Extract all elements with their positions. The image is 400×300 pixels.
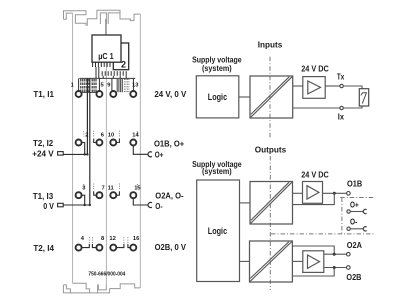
+24V external wire bbox=[63, 153, 87, 155]
amp triangle bbox=[308, 81, 321, 94]
wall left bbox=[72, 13, 74, 283]
svg-text:750-666/000-004: 750-666/000-004 bbox=[88, 272, 126, 278]
O1B terminal bbox=[347, 192, 351, 196]
wire logic to dcdc lower bbox=[240, 260, 250, 262]
terminal 11 bbox=[110, 192, 116, 198]
svg-text:15: 15 bbox=[134, 185, 141, 191]
svg-text:24 V, 0 V: 24 V, 0 V bbox=[154, 90, 186, 99]
svg-text:(system): (system) bbox=[202, 64, 232, 73]
inputs dash-dot separator bbox=[269, 57, 271, 139]
amplifier box upper bbox=[303, 182, 323, 204]
svg-text:7: 7 bbox=[102, 185, 105, 191]
channel separator horizontal bbox=[271, 233, 374, 235]
svg-text:T2, I2: T2, I2 bbox=[33, 139, 54, 148]
power rail +24V bbox=[86, 78, 88, 154]
Ix terminal circle bbox=[340, 106, 343, 109]
junction dot bbox=[84, 153, 86, 155]
svg-text:Logic: Logic bbox=[208, 226, 227, 236]
terminal 16 bbox=[130, 245, 136, 251]
svg-text:Ix: Ix bbox=[338, 113, 345, 122]
bus bar bbox=[79, 77, 135, 79]
dcdc converter lower bbox=[250, 241, 293, 282]
svg-text:T1, I3: T1, I3 bbox=[33, 192, 54, 201]
uC1 pins bbox=[93, 62, 110, 67]
O- option contact bbox=[347, 227, 350, 230]
hatch bottom line bbox=[79, 91, 97, 93]
outputs dash-dot separator vertical bbox=[269, 156, 271, 290]
wire Tx to load bbox=[344, 86, 362, 89]
svg-text:O1B, O+: O1B, O+ bbox=[154, 140, 184, 149]
row3 stubs bbox=[94, 191, 120, 195]
power rail 0V bbox=[89, 78, 91, 205]
svg-text:0 V: 0 V bbox=[43, 202, 54, 211]
load / sensor box bbox=[359, 89, 368, 106]
svg-text:O2B, 0 V: O2B, 0 V bbox=[155, 243, 187, 252]
svg-text:O2A: O2A bbox=[347, 241, 362, 250]
rail wire upper bbox=[293, 193, 335, 204]
wire logic to dcdc bbox=[239, 96, 250, 98]
wire terminal14 to O+ socket bbox=[133, 146, 147, 154]
dashed option box bbox=[341, 198, 343, 234]
svg-text:2: 2 bbox=[121, 59, 126, 69]
O2B loop bbox=[292, 268, 334, 277]
terminal 10 bbox=[110, 140, 116, 146]
wire logic to dcdc upper bbox=[240, 202, 251, 204]
terminal 2 bbox=[76, 140, 82, 146]
svg-text:O+: O+ bbox=[155, 150, 164, 159]
wire bundle hatch B bbox=[92, 79, 96, 92]
svg-text:O1B: O1B bbox=[347, 179, 362, 188]
dcdc converter upper bbox=[250, 182, 293, 225]
svg-text:T1, I1: T1, I1 bbox=[33, 90, 54, 99]
wire bundle hatch C bbox=[117, 79, 122, 92]
Tx terminal circle bbox=[340, 84, 343, 87]
0V external wire bbox=[63, 204, 90, 206]
wire bundle hatch D dotted bbox=[124, 79, 128, 92]
+24V plug bbox=[58, 152, 64, 156]
terminal 7 bbox=[96, 192, 102, 198]
O+ socket right bbox=[148, 152, 152, 157]
wall right bbox=[139, 14, 141, 288]
svg-text:(system): (system) bbox=[202, 167, 232, 176]
module bottom contour bbox=[63, 283, 140, 293]
terminal 6 bbox=[96, 140, 102, 146]
pin bus wires bbox=[96, 67, 126, 78]
amplifier box bbox=[303, 77, 325, 99]
uC2 pins bbox=[102, 71, 126, 76]
logic box bbox=[196, 76, 239, 118]
dcdc converter box bbox=[250, 76, 293, 118]
svg-text:16: 16 bbox=[133, 236, 140, 242]
svg-text:10: 10 bbox=[108, 133, 114, 139]
svg-text:11: 11 bbox=[108, 185, 115, 191]
wire amp to Tx bbox=[325, 85, 339, 87]
junction dot bbox=[333, 192, 336, 195]
amp out lower bbox=[324, 267, 346, 269]
svg-text:Logic: Logic bbox=[208, 92, 227, 102]
svg-text:12: 12 bbox=[109, 236, 115, 242]
amp out upper bbox=[324, 253, 346, 255]
wire terminal15 to O- socket bbox=[133, 199, 147, 205]
row1 circle wires bbox=[79, 78, 134, 90]
terminal 14 bbox=[130, 140, 136, 146]
row4 link wires bbox=[82, 244, 130, 248]
svg-text:T2, I4: T2, I4 bbox=[33, 244, 54, 253]
wire dcdc to amp upper bbox=[293, 192, 303, 194]
terminal 8 bbox=[96, 245, 102, 251]
O+ option contact bbox=[347, 210, 350, 213]
wire amp to O1B bbox=[323, 192, 347, 194]
terminal 5 bbox=[96, 91, 102, 97]
svg-text:14: 14 bbox=[132, 133, 139, 139]
wire uC to top contact bbox=[105, 19, 107, 35]
O2A loop bbox=[292, 246, 334, 254]
hatch white stripes bbox=[80, 82, 97, 89]
module top contour bbox=[64, 10, 141, 26]
amplifier box lower bbox=[303, 251, 324, 273]
0V plug bbox=[58, 203, 64, 207]
svg-text:O2A, O-: O2A, O- bbox=[155, 192, 184, 201]
svg-text:24 V DC: 24 V DC bbox=[301, 65, 329, 74]
svg-text:13: 13 bbox=[132, 83, 139, 89]
dcdc diagonals bbox=[251, 77, 292, 117]
svg-text:Tx: Tx bbox=[337, 73, 345, 82]
svg-text:24 V DC: 24 V DC bbox=[301, 171, 329, 180]
row2: wire terminal2 to rail bbox=[82, 143, 85, 155]
wire dcdc to amp bbox=[293, 85, 303, 87]
terminal 15 bbox=[130, 192, 136, 198]
terminal 9 bbox=[110, 91, 116, 97]
row3: wire terminal3 to rail bbox=[82, 195, 85, 205]
terminal 13 bbox=[130, 91, 136, 97]
svg-text:Inputs: Inputs bbox=[258, 41, 283, 50]
sensor glyph bbox=[361, 93, 367, 104]
logic box 2 bbox=[197, 180, 240, 282]
svg-text:Outputs: Outputs bbox=[255, 145, 287, 154]
module side walls / separators bbox=[73, 13, 141, 288]
microcontroller U1 bbox=[92, 35, 121, 62]
row2 stubs on 6,10 bbox=[94, 139, 120, 143]
O2A terminal bbox=[347, 252, 351, 256]
wire dcdc to amp lower bbox=[292, 260, 302, 262]
svg-text:O-: O- bbox=[350, 218, 358, 227]
terminal 4 bbox=[76, 245, 82, 251]
svg-text:2: 2 bbox=[85, 133, 88, 139]
terminal 3 bbox=[76, 192, 82, 198]
O- socket right bbox=[148, 203, 152, 208]
svg-text:O+: O+ bbox=[350, 201, 359, 210]
svg-text:µC 1: µC 1 bbox=[98, 52, 114, 61]
svg-text:O-: O- bbox=[155, 202, 163, 211]
O2B terminal bbox=[347, 266, 351, 270]
wire Ix to dcdc bbox=[293, 107, 340, 109]
microcontroller U2 bbox=[113, 43, 128, 70]
svg-text:O2B: O2B bbox=[346, 273, 361, 282]
wall middle bbox=[105, 24, 107, 284]
svg-text:+24 V: +24 V bbox=[32, 150, 54, 159]
wire load to Ix bbox=[344, 106, 362, 108]
terminal 12 bbox=[110, 245, 116, 251]
terminal 1 bbox=[76, 91, 82, 97]
wire bundle hatch A bbox=[81, 79, 89, 92]
